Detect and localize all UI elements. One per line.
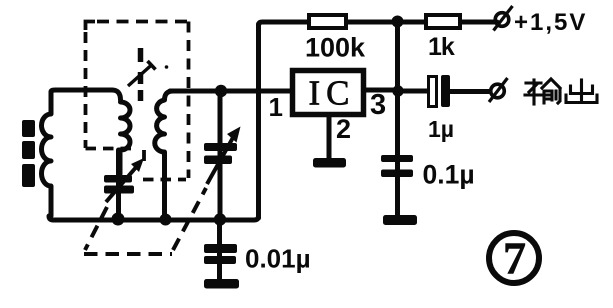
svg-text:1µ: 1µ (428, 116, 454, 142)
svg-text:1k: 1k (428, 33, 455, 61)
svg-text:+1,5V: +1,5V (514, 9, 587, 36)
svg-text:3: 3 (370, 89, 386, 121)
svg-text:1: 1 (269, 92, 283, 122)
svg-text:0.1µ: 0.1µ (423, 160, 475, 190)
svg-text:7: 7 (503, 233, 526, 284)
svg-text:2: 2 (336, 114, 351, 144)
svg-text:0.01µ: 0.01µ (245, 244, 311, 274)
svg-text:IC: IC (309, 74, 356, 113)
svg-text:100k: 100k (305, 33, 366, 63)
